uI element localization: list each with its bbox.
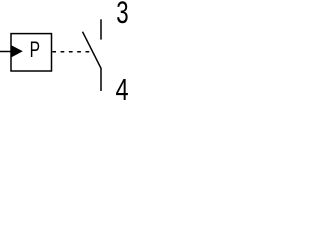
label P bbox=[30, 37, 40, 63]
svg-text:3: 3 bbox=[116, 0, 128, 30]
wire: terminal 4 lead bbox=[100, 68, 102, 91]
svg-text:4: 4 bbox=[115, 72, 128, 100]
pressure switch body bbox=[11, 34, 52, 71]
dashed actuation link bbox=[52, 51, 91, 53]
pin label 4 bbox=[115, 72, 128, 107]
actuation arrow bbox=[0, 45, 23, 58]
svg-text:P: P bbox=[30, 37, 40, 63]
contact blade bbox=[83, 32, 102, 69]
wire: terminal 3 lead bbox=[100, 19, 102, 39]
pin label 3 bbox=[116, 0, 128, 30]
